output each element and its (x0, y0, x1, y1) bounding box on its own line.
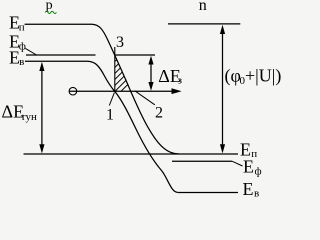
svg-text:2: 2 (155, 105, 163, 122)
pointer from E_ф n-side line to label (232, 161, 243, 166)
svg-text:1: 1 (106, 107, 114, 124)
ΔE_тун double arrow (41, 66, 43, 149)
pointer from band crossing to 2 (135, 91, 155, 105)
svg-text:E: E (243, 157, 254, 177)
level E_в n-side line (178, 192, 238, 194)
top n-side line (168, 23, 240, 25)
hatching of tunneling window (108, 40, 136, 104)
vertical line at junction (below 3) (114, 47, 116, 91)
svg-text:ф: ф (255, 166, 262, 178)
pointer from E_ф label to line (25, 48, 36, 55)
horizontal line at E_ф level from junction to ΔE_з arrow (115, 54, 155, 56)
svg-text:в: в (254, 188, 259, 200)
svg-text:3: 3 (116, 34, 124, 51)
spellcheck squiggle under p (45, 11, 56, 13)
level E_ф n-side line (172, 160, 232, 162)
svg-text:+|U|): +|U|) (245, 65, 281, 86)
level E_п p-side line (25, 23, 92, 25)
ΔE_з double arrow (150, 59, 152, 87)
valence band curve E_в across junction (88, 61, 178, 192)
(φ0+|U|) double arrow (222, 29, 224, 149)
svg-text:тун: тун (21, 111, 37, 123)
level E_ф p-side line (26, 54, 96, 56)
svg-text:n: n (199, 0, 207, 14)
svg-text:в: в (19, 56, 24, 68)
electron arrowhead (172, 88, 182, 94)
baseline / E_п n-side level (24, 153, 239, 155)
svg-text:(φ: (φ (225, 65, 241, 86)
svg-text:E: E (243, 179, 254, 199)
conduction band curve E_п across junction (92, 24, 179, 154)
svg-text:з: з (178, 75, 182, 87)
electron symbol (circle with minus) (69, 87, 77, 95)
electron path line with arrow (69, 90, 172, 92)
pointer from junction to 1 (109, 93, 114, 106)
level E_в p-side line (25, 60, 88, 62)
